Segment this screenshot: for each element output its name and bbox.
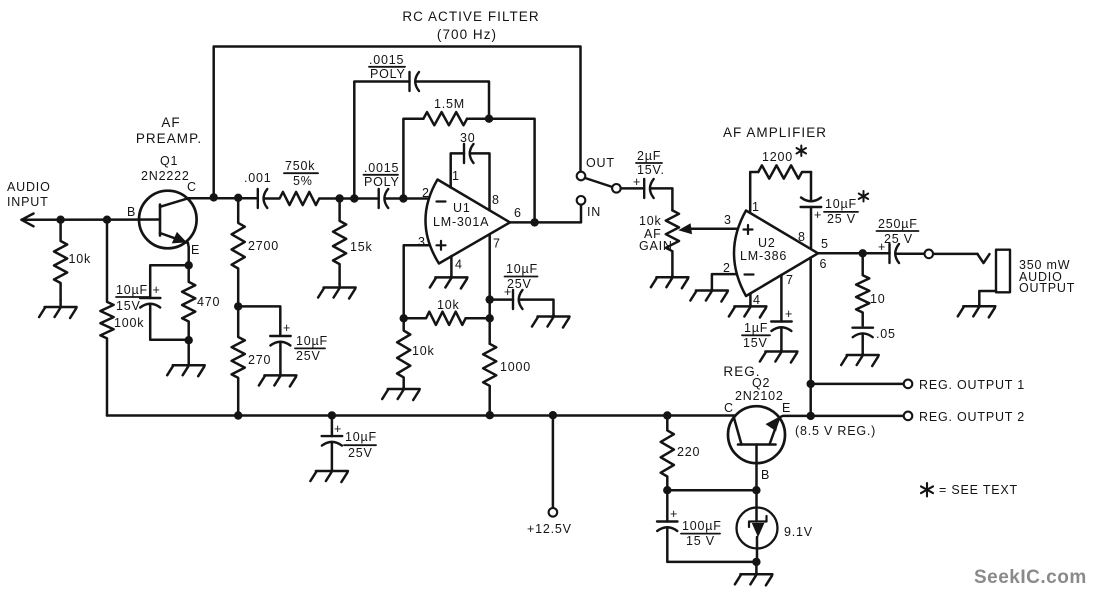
label 6 (U2) — [820, 257, 827, 271]
svg-text:10µF: 10µF — [825, 197, 857, 211]
ground (.05) — [841, 354, 879, 367]
capacitor 10uF/25V* arc plate — [801, 198, 821, 202]
svg-text:2700: 2700 — [248, 239, 279, 253]
label .0015 (top) — [369, 53, 404, 67]
resistor 750k (horizontal) — [264, 192, 340, 205]
resistor 470 — [182, 265, 195, 340]
label .05 — [876, 327, 896, 341]
switch arm — [585, 178, 612, 187]
node rail-12.5V — [549, 411, 557, 419]
wire zener to ground — [755, 562, 758, 573]
transistor Q1 circle — [139, 191, 197, 249]
wire pin1 up — [451, 153, 464, 187]
terminal IN — [577, 196, 586, 205]
node pin7-10k — [486, 314, 494, 322]
label 15V. — [637, 163, 665, 177]
node 15k top — [335, 194, 343, 202]
fraction bar (mid cap) — [295, 347, 325, 349]
svg-text:15V: 15V — [743, 336, 768, 350]
label 1uF — [744, 321, 768, 335]
svg-text:Q1: Q1 — [160, 154, 178, 168]
wire pin3 — [404, 245, 429, 318]
capacitor 10uF/15V plate — [140, 297, 160, 299]
node E junction — [807, 412, 815, 420]
label asterisk (1200) — [797, 146, 807, 157]
svg-text:+: + — [814, 208, 822, 222]
wire U2 pin2 to ground — [712, 274, 737, 289]
wire 1.5M left vertical — [403, 119, 423, 199]
label 8 (U1) — [492, 193, 499, 207]
wire bottom rail — [107, 414, 734, 417]
wire cap to pin2 node — [385, 197, 429, 200]
label 25 V (U2 cap) — [827, 212, 856, 226]
op-amp U1 — [425, 180, 510, 264]
svg-text:6: 6 — [820, 257, 827, 271]
node input-100k junction — [103, 216, 111, 224]
svg-text:10µF: 10µF — [116, 283, 148, 297]
svg-text:25V: 25V — [507, 277, 532, 291]
svg-text:E: E — [782, 401, 791, 415]
wire REG output 2 — [814, 415, 903, 418]
ground (zener) — [735, 573, 773, 586]
fraction bar 250uF — [877, 230, 919, 232]
svg-text:+12.5V: +12.5V — [527, 522, 572, 536]
wire collector to signal line — [189, 197, 258, 200]
label 1200 — [762, 150, 793, 164]
svg-text:1: 1 — [452, 169, 459, 183]
label minus (U2 pin2) — [745, 273, 754, 275]
terminal audio output — [925, 250, 934, 259]
capacitor 10uF/25V (pin7) arc plate — [519, 290, 523, 309]
transistor Q1 emitter arrow — [172, 232, 187, 244]
svg-text:AF: AF — [161, 115, 180, 130]
svg-text:AF AMPLIFIER: AF AMPLIFIER — [723, 125, 827, 140]
svg-text:10k: 10k — [437, 298, 460, 312]
label Q2 — [752, 376, 770, 390]
svg-text:= SEE TEXT: = SEE TEXT — [939, 483, 1018, 497]
label 4 (U1) — [455, 258, 462, 272]
label GAIN (pot) — [639, 239, 673, 253]
node U2 output — [859, 249, 867, 257]
wire 750k to cap — [340, 197, 379, 200]
wire U2 pin4 to ground — [749, 294, 752, 305]
capacitor .05 plate — [853, 327, 874, 329]
label 6 (U1) — [514, 206, 521, 220]
svg-text:270: 270 — [248, 353, 271, 367]
label 10 — [870, 292, 886, 306]
label 5 (U2) — [821, 237, 828, 251]
label 5% — [293, 174, 313, 188]
terminal +12.5V — [549, 508, 558, 517]
terminal switch common — [612, 184, 621, 193]
svg-text:25V: 25V — [348, 446, 373, 460]
label LM-301A — [433, 215, 489, 229]
resistor 2700 — [232, 198, 245, 307]
wire .0015 top loop left vertical — [354, 82, 409, 199]
fraction bar 750k — [284, 172, 318, 174]
node REG output 1 junction — [807, 380, 815, 388]
ground (470) — [167, 340, 205, 376]
svg-text:RC ACTIVE FILTER: RC ACTIVE FILTER — [402, 9, 539, 24]
svg-text:.0015: .0015 — [364, 161, 399, 175]
fraction bar .0015 (mid) — [364, 174, 399, 176]
capacitor 10uF/25V (pin7) plate — [512, 290, 514, 309]
svg-text:15V.: 15V. — [637, 163, 665, 177]
transistor Q1 emitter lead — [160, 233, 188, 243]
resistor 100k — [100, 220, 113, 416]
label 30 — [460, 131, 476, 145]
ground (pin7 cap) — [532, 315, 570, 328]
svg-text:2µF: 2µF — [637, 149, 661, 163]
svg-text:B: B — [761, 468, 770, 482]
ground (U2 pin4) — [729, 305, 767, 318]
resistor 10 — [856, 253, 869, 325]
svg-text:25 V: 25 V — [827, 212, 856, 226]
label AF (pot) — [644, 227, 662, 241]
svg-text:100k: 100k — [114, 316, 144, 330]
transistor Q2 emitter lead — [770, 417, 780, 444]
label E — [191, 243, 200, 257]
label + (250uF) — [878, 240, 886, 254]
label 15V — [116, 299, 141, 313]
pot wiper wire — [690, 228, 738, 231]
ground (mid cap) — [259, 374, 297, 386]
label OUTPUT — [1019, 281, 1075, 295]
ground (1uF) — [760, 350, 798, 363]
jack tip contact V — [978, 254, 990, 263]
label IN — [587, 205, 601, 219]
wire .0015 top loop right vertical — [416, 82, 490, 119]
svg-text:B: B — [127, 205, 136, 219]
node input-10k junction — [56, 216, 64, 224]
label + (pin7 cap) — [504, 285, 512, 299]
node rail-1000 — [486, 411, 494, 419]
wire emitter down — [187, 243, 190, 265]
resistor 1000 — [483, 344, 496, 415]
svg-text:4: 4 — [455, 258, 462, 272]
label plus (U2 pin3) — [744, 225, 753, 234]
capacitor 30 arc plate — [470, 144, 474, 163]
label 25 V (250uF) — [884, 232, 913, 246]
node rail-cap — [328, 411, 336, 419]
svg-text:3: 3 — [724, 213, 731, 227]
wire rail cap lead — [331, 415, 334, 436]
capacitor 10uF/25V (rail) plate — [322, 435, 343, 437]
svg-text:15k: 15k — [350, 240, 373, 254]
svg-text:+: + — [785, 307, 793, 321]
label 10uF — [116, 283, 148, 297]
svg-text:+: + — [283, 321, 291, 335]
label 15 V (100uF) — [686, 534, 715, 548]
label .0015 (mid) — [364, 161, 399, 175]
label POLY (top) — [370, 67, 406, 81]
svg-text:10µF: 10µF — [345, 430, 377, 444]
label POLY (mid) — [364, 175, 400, 189]
svg-text:.05: .05 — [876, 327, 896, 341]
svg-text:5: 5 — [821, 237, 828, 251]
wire common to 2uF — [621, 187, 645, 190]
svg-text:Q2: Q2 — [752, 376, 770, 390]
wire 1uF to ground — [780, 327, 783, 350]
label OUT — [586, 156, 615, 170]
node rail-270 — [234, 411, 242, 419]
svg-text:+: + — [153, 283, 161, 297]
svg-text:30: 30 — [460, 131, 476, 145]
capacitor .0015 POLY (top) arc plate — [415, 72, 419, 91]
label E (Q2) — [782, 401, 791, 415]
label 1 (U1) — [452, 169, 459, 183]
terminal OUT — [577, 172, 586, 181]
wire 1200 to cap — [810, 172, 813, 201]
wire 250uF to terminal — [896, 252, 925, 255]
label Q1 — [160, 154, 178, 168]
label +12.5V — [527, 522, 572, 536]
label LM-386 — [740, 249, 787, 263]
node zener bottom — [752, 558, 760, 566]
svg-text:6: 6 — [514, 206, 521, 220]
svg-text:1000: 1000 — [500, 360, 531, 374]
label B — [127, 205, 136, 219]
zener diode circle 9.1V — [737, 508, 778, 549]
label 8 (U2) — [798, 230, 805, 244]
svg-text:POLY: POLY — [370, 67, 406, 81]
ground (U1 pin4) — [430, 276, 468, 288]
resistor 1.5M — [423, 112, 467, 125]
label (8.5 V REG.) — [795, 424, 876, 438]
wire top rail — [214, 47, 581, 198]
label 25V (mid) — [296, 349, 321, 363]
svg-text:C: C — [724, 401, 734, 415]
svg-text:9.1V: 9.1V — [784, 525, 813, 539]
label 10k (horizontal) — [437, 298, 460, 312]
resistor 270 — [232, 306, 245, 415]
label 470 — [197, 295, 220, 309]
resistor 15k — [333, 199, 346, 285]
label 3 (U1) — [418, 235, 425, 249]
capacitor 1uF/15V plate — [771, 320, 792, 322]
svg-text:OUT: OUT — [586, 156, 615, 170]
wire pin7 cap to ground — [519, 300, 554, 315]
note asterisk = SEE TEXT — [921, 483, 933, 497]
wire terminal to jack — [933, 253, 977, 256]
svg-text:REG. OUTPUT 2: REG. OUTPUT 2 — [919, 410, 1025, 424]
wire 100uF bottom — [667, 527, 756, 562]
label C — [187, 180, 197, 194]
resistor 10k (vertical to ground) — [397, 318, 410, 387]
svg-text:7: 7 — [786, 273, 793, 287]
capacitor 10uF/25V (rail) arc plate — [322, 442, 342, 446]
label 250uF — [878, 217, 918, 231]
svg-text:1µF: 1µF — [744, 321, 768, 335]
capacitor 10uF/25V (mid) plate — [270, 335, 291, 337]
label 1.5M — [434, 97, 465, 111]
svg-text:2N2222: 2N2222 — [141, 169, 190, 183]
node base-220 junction — [752, 486, 760, 494]
wire cap bottom — [150, 304, 189, 340]
label 2 (U1) — [422, 186, 429, 200]
svg-text:GAIN: GAIN — [639, 239, 673, 253]
wire 30 cap to pin8 — [470, 153, 490, 210]
svg-text:LM-386: LM-386 — [740, 249, 787, 263]
label 10uF (rail cap) — [345, 430, 377, 444]
label 2N2222 — [141, 169, 190, 183]
ground (jack) — [958, 305, 996, 318]
svg-text:25 V: 25 V — [884, 232, 913, 246]
svg-text:100µF: 100µF — [682, 519, 722, 533]
wire Q2 emitter to E node — [779, 416, 811, 418]
wire U2 pin7 down — [780, 275, 783, 322]
svg-text:8: 8 — [492, 193, 499, 207]
fraction bar (U2 cap) — [824, 211, 858, 213]
capacitor .0015 POLY (mid) arc plate — [384, 189, 388, 208]
svg-text:10k: 10k — [639, 214, 662, 228]
wire U2 pin6 down to E node — [809, 258, 812, 416]
node pin7-cap — [486, 295, 494, 303]
audio input arrow — [22, 214, 34, 227]
node emitter junction — [185, 261, 193, 269]
svg-text:5%: 5% — [293, 174, 313, 188]
fraction bar (pin7 cap) — [505, 276, 538, 278]
capacitor 100uF/15V plate — [657, 520, 678, 522]
svg-text:10k: 10k — [412, 344, 435, 358]
label U1 — [453, 201, 471, 215]
label + (10uF/15V) — [153, 283, 161, 297]
ground (pot) — [651, 276, 689, 289]
label AUDIO — [1019, 270, 1063, 284]
wire mid cap to ground — [279, 342, 282, 374]
fraction bar .0015 (top) — [369, 66, 405, 68]
wire U2 pin1 up — [750, 172, 758, 211]
label 2uF — [637, 149, 661, 163]
node 1.5M right — [485, 115, 493, 123]
wire U1 output — [510, 205, 581, 223]
wire 220 node to base node — [667, 489, 756, 492]
fraction bar 1uF — [742, 334, 770, 336]
wire cap branch — [490, 298, 513, 301]
wire emitter to cap — [150, 265, 189, 298]
label 2N2102 — [735, 389, 784, 403]
transistor Q2 base bar — [738, 443, 776, 446]
fraction bar 10uF/15V — [116, 296, 150, 298]
label plus (U1 pin3) — [437, 241, 446, 250]
node U1 output — [530, 218, 538, 226]
node 2700 top — [234, 194, 242, 202]
node rail-220 — [663, 411, 671, 419]
label 100uF — [682, 519, 722, 533]
fraction bar 2uF — [636, 162, 662, 164]
svg-text:4: 4 — [753, 293, 760, 307]
label 15V (1uF) — [743, 336, 768, 350]
label + (mid cap) — [283, 321, 291, 335]
svg-text:15V: 15V — [116, 299, 141, 313]
label 10k (vertical) — [412, 344, 435, 358]
op-amp U2 — [734, 211, 818, 297]
svg-text:SeekIC.com: SeekIC.com — [974, 567, 1087, 588]
capacitor 10uF/25V* plate — [801, 206, 822, 208]
wire zener bottom — [756, 537, 759, 562]
label REG. OUTPUT 2 — [919, 410, 1025, 424]
label 7 (U1) — [493, 237, 500, 251]
wire 1.5M to output — [467, 119, 535, 223]
capacitor 30 plate — [463, 144, 465, 163]
capacitor 2uF plate — [643, 179, 645, 198]
fraction bar 100uF — [681, 533, 720, 535]
svg-text:470: 470 — [197, 295, 220, 309]
transistor Q2 emitter arrow — [766, 417, 780, 432]
label 270 — [248, 353, 271, 367]
label 10uF (U2 cap) — [825, 197, 857, 211]
label 2 (U2) — [723, 261, 730, 275]
svg-text:2: 2 — [422, 186, 429, 200]
svg-text:IN: IN — [587, 205, 601, 219]
label 10uF (pin7 cap) — [506, 262, 538, 276]
terminal REG OUTPUT 2 — [904, 412, 913, 421]
node 220-100uF — [663, 486, 671, 494]
resistor 10k (input) — [54, 220, 67, 300]
ground (15k) — [318, 284, 356, 299]
label 1 (U2) — [752, 200, 759, 214]
resistor 10k (horizontal) — [404, 312, 490, 325]
ground (rail cap) — [310, 470, 348, 483]
svg-text:10µF: 10µF — [296, 334, 328, 348]
capacitor 250uF plate — [888, 244, 890, 263]
svg-text:E: E — [191, 243, 200, 257]
svg-text:+: + — [334, 422, 342, 436]
wire +12.5V lead — [552, 415, 555, 508]
svg-text:INPUT: INPUT — [7, 195, 49, 209]
svg-text:10µF: 10µF — [506, 262, 538, 276]
svg-text:AUDIO: AUDIO — [7, 180, 51, 194]
wire input line — [22, 218, 161, 221]
label REG. OUTPUT 1 — [919, 378, 1025, 392]
svg-text:POLY: POLY — [364, 175, 400, 189]
label .001 — [244, 171, 272, 185]
label 4 (U2) — [753, 293, 760, 307]
svg-text:10: 10 — [870, 292, 886, 306]
capacitor .05 arc plate — [853, 333, 873, 337]
label 100k — [114, 316, 144, 330]
fraction bar (rail cap) — [344, 444, 376, 446]
label 2700 — [248, 239, 279, 253]
transistor Q1 collector lead — [160, 198, 189, 207]
svg-text:220: 220 — [677, 445, 700, 459]
label AUDIO INPUT — [7, 180, 51, 209]
wire rail cap to ground — [331, 442, 334, 470]
label 220 — [677, 445, 700, 459]
potentiometer 10k AF GAIN — [666, 210, 679, 275]
resistor 220 — [661, 416, 674, 491]
svg-text:7: 7 — [493, 237, 500, 251]
wire pin4 to ground — [450, 256, 453, 276]
label 7 (U2) — [786, 273, 793, 287]
label C (Q2) — [724, 401, 734, 415]
label + (U2 cap) — [814, 208, 822, 222]
label 1000 — [500, 360, 531, 374]
svg-text:750k: 750k — [285, 159, 315, 173]
label + (100uF) — [670, 507, 678, 521]
label asterisk (U2 cap) — [859, 191, 869, 202]
node .0015 loop top — [350, 194, 358, 202]
label 10k (pot) — [639, 214, 662, 228]
label 9.1V — [784, 525, 813, 539]
label 10k — [69, 252, 92, 266]
capacitor .0015 POLY (top) plate — [408, 72, 410, 91]
label 3 (U2) — [724, 213, 731, 227]
ground (U2 pin2) — [690, 289, 728, 302]
capacitor .001 arc plate — [264, 189, 268, 208]
wire Q2 base lead — [755, 445, 758, 522]
svg-text:U1: U1 — [453, 201, 471, 215]
